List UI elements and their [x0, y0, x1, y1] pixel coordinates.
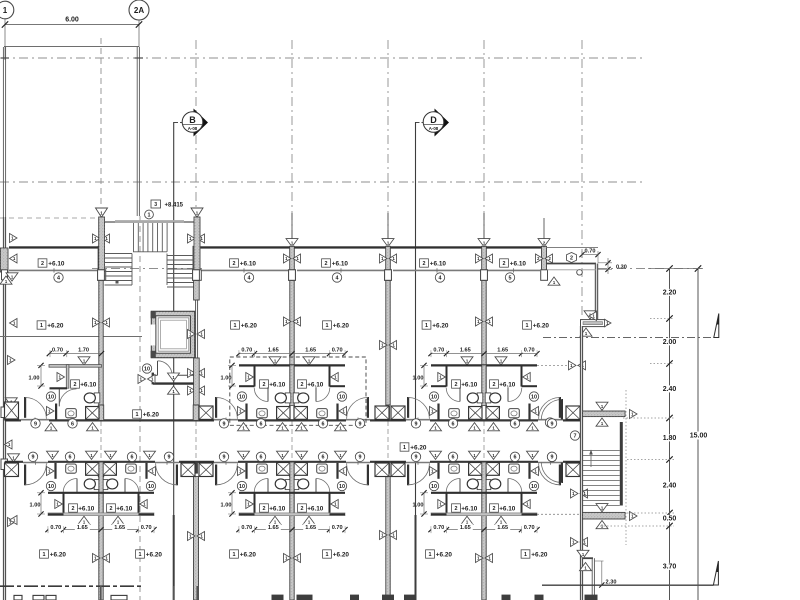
bathroom door right: [508, 479, 522, 493]
grid line 1 vertical: [4, 19, 6, 60]
bottom window stub x=111: [111, 595, 127, 600]
shower tray: [294, 463, 307, 476]
svg-text:10: 10: [144, 366, 150, 372]
mid pier upper x=196: [193, 405, 199, 420]
marker tri 1: [78, 357, 90, 365]
svg-text:1: 1: [425, 323, 428, 329]
grid line C horizontal: [92, 268, 204, 270]
svg-text:+6.20: +6.20: [47, 322, 64, 329]
toilet: [293, 479, 309, 490]
svg-text:1.65: 1.65: [460, 348, 471, 354]
party wall in pod: [290, 462, 294, 515]
shower tray: [486, 463, 499, 476]
svg-text:10: 10: [148, 484, 154, 490]
svg-text:2: 2: [325, 261, 328, 267]
dim tick 15.00 top: [695, 265, 701, 271]
dimension 0.70/1.70: [47, 348, 104, 358]
tri up wall right: [580, 328, 592, 336]
bathroom pod pair lower x=484: [407, 462, 561, 533]
mid pier lower x=388: [386, 462, 390, 474]
svg-text:+6.20: +6.20: [410, 444, 427, 451]
svg-text:1: 1: [43, 552, 46, 558]
svg-text:6: 6: [514, 421, 517, 427]
bowtie x=544: [536, 254, 553, 263]
grid dash in corridor at x=101: [100, 421, 102, 461]
stair mid landing line: [133, 251, 167, 253]
svg-text:0.70: 0.70: [241, 348, 252, 354]
svg-text:2: 2: [72, 506, 75, 512]
svg-text:+6.10: +6.10: [307, 505, 324, 512]
entry door: [24, 397, 46, 419]
wall right step: [546, 264, 598, 327]
column pier at x=101: [98, 246, 105, 280]
svg-text:1: 1: [234, 323, 237, 329]
svg-text:2: 2: [570, 255, 573, 261]
circled 7: [570, 431, 579, 440]
svg-text:1.00: 1.00: [413, 375, 424, 381]
svg-text:0.70: 0.70: [332, 348, 343, 354]
column pier at x=544: [541, 246, 548, 280]
wall stub right: [528, 404, 530, 420]
svg-text:9: 9: [551, 455, 554, 461]
corridor symbols upper x=292: [219, 419, 364, 431]
marker tri 1: [438, 373, 446, 382]
marker tri 1: [269, 516, 281, 524]
label 2 +6.10: [490, 504, 499, 512]
marker tri entry left: [430, 407, 438, 416]
column pier at x=292: [289, 246, 296, 280]
bowtie x=484 upper room: [476, 317, 493, 326]
marker tri 1: [331, 500, 339, 509]
svg-text:1.65: 1.65: [305, 525, 316, 531]
svg-text:+8.415: +8.415: [165, 202, 184, 208]
label +6.10 corridor: [420, 259, 429, 267]
bottom wall stub x=501.5: [502, 595, 511, 600]
svg-text:10: 10: [239, 394, 245, 400]
bathroom bottom walls: [431, 385, 537, 387]
wall stub left: [245, 404, 247, 420]
svg-text:6: 6: [322, 421, 325, 427]
svg-text:1: 1: [403, 445, 406, 451]
svg-text:2: 2: [423, 261, 426, 267]
wash basin: [257, 409, 268, 418]
stair left pier: [99, 217, 106, 280]
dim 0.30 right: [598, 258, 627, 274]
tri above left xbox lower: [8, 454, 20, 462]
svg-text:2: 2: [74, 382, 77, 388]
marker tri entry right: [339, 407, 347, 416]
elevator wall cap top: [151, 311, 156, 318]
bowtie x=196 upper room: [188, 330, 205, 339]
dimension 1.00: [413, 490, 428, 516]
tri right wall lower: [8, 518, 16, 527]
marker tri 1: [331, 373, 339, 382]
wall marker tri x=388: [382, 213, 394, 247]
svg-text:+6.10: +6.10: [80, 381, 97, 388]
toilet: [84, 393, 100, 403]
bowtie x=388 lower room: [380, 531, 397, 540]
label +6.20 lower room: [323, 550, 332, 558]
tri right of column: [605, 319, 612, 327]
marker tri 1: [495, 516, 507, 524]
dim tick y=318.5: [666, 315, 672, 321]
svg-text:A-08: A-08: [188, 126, 198, 131]
party wall white panel: [289, 462, 294, 476]
svg-text:+6.10: +6.10: [240, 260, 257, 267]
left end pier: [1, 248, 9, 280]
svg-text:9: 9: [168, 455, 171, 461]
grid dash in corridor at x=484: [483, 421, 485, 461]
svg-text:10: 10: [339, 484, 345, 490]
right stair upper bar: [583, 411, 625, 417]
svg-text:6: 6: [260, 421, 263, 427]
svg-text:1: 1: [3, 6, 8, 15]
wash basin: [449, 464, 460, 473]
party wall white panel: [481, 462, 486, 476]
dim tick y=418: [666, 415, 672, 421]
corridor symbols lower x=292: [219, 451, 364, 461]
svg-text:+6.10: +6.10: [461, 381, 478, 388]
small circle right: [577, 270, 583, 276]
svg-text:4: 4: [336, 275, 339, 281]
bathroom top wall: [431, 364, 537, 366]
party wall x=388 upper rooms: [386, 281, 390, 406]
lobby marker vertical bowtie: [168, 373, 180, 394]
section marker D: [416, 109, 450, 137]
label +6.20 corridor bay2: [133, 410, 142, 418]
grid bubble 2A: [129, 0, 149, 20]
tri down stair top: [596, 402, 608, 410]
shaft xbox lower: [5, 462, 19, 476]
pier foot redraw x=196: [193, 270, 200, 281]
bathroom pod unit 1: [24, 348, 104, 420]
shower tray: [86, 463, 99, 476]
lobby bowtie left: [138, 375, 155, 384]
label +6.20 upper room: [231, 321, 240, 329]
shaft xbox lower: [375, 462, 389, 476]
entry door right: [347, 464, 369, 486]
bathroom door right: [508, 387, 522, 401]
marker tri entry: [47, 407, 55, 416]
party wall x=292 lower rooms: [290, 477, 294, 600]
funnel marker x=101: [96, 208, 108, 222]
svg-text:+6.20: +6.20: [533, 322, 550, 329]
label +6.10 corridor: [322, 259, 331, 267]
svg-text:1.65: 1.65: [268, 348, 279, 354]
bathroom bottom walls: [239, 385, 345, 387]
svg-text:1: 1: [524, 552, 527, 558]
toilet: [485, 393, 501, 403]
svg-text:10: 10: [239, 484, 245, 490]
circled 10: [337, 392, 346, 401]
label 2 +6.10: [298, 380, 307, 388]
entry door left: [215, 397, 237, 419]
bottom wall left: [0, 585, 142, 587]
grid dash in corridor at x=292: [291, 421, 293, 461]
section line B: [173, 122, 175, 600]
label +6.20 upper room: [422, 321, 431, 329]
svg-text:10: 10: [48, 484, 54, 490]
tri right wall upper: [8, 356, 16, 365]
stair lower flight left: [105, 254, 133, 286]
circled 10: [146, 481, 155, 490]
svg-text:9: 9: [551, 421, 554, 427]
svg-text:1.80: 1.80: [663, 435, 677, 442]
party wall x=196 lower rooms: [194, 477, 199, 600]
svg-text:+6.20: +6.20: [50, 551, 67, 558]
svg-text:1.65: 1.65: [114, 525, 125, 531]
party wall in pod: [290, 365, 294, 420]
dim text 2.00: [661, 338, 679, 346]
svg-text:1.70: 1.70: [78, 348, 89, 354]
svg-text:+6.10: +6.10: [48, 260, 65, 267]
svg-text:2: 2: [301, 506, 304, 512]
entry door right: [156, 464, 178, 486]
wall stub left: [54, 463, 56, 479]
entry door left: [407, 397, 429, 419]
toilet: [467, 393, 483, 403]
dim ext y=513: [627, 512, 674, 514]
column right step: [581, 320, 606, 327]
label +6.20 lower room: [40, 550, 49, 558]
marker tri entry right: [531, 407, 539, 416]
svg-text:2: 2: [455, 382, 458, 388]
svg-text:+6.10: +6.10: [461, 505, 478, 512]
right stair arrow: [589, 450, 593, 468]
label 2 +6.10: [107, 504, 116, 512]
svg-text:1: 1: [526, 323, 529, 329]
svg-text:+6.20: +6.20: [432, 322, 449, 329]
left exterior wall: [3, 217, 5, 600]
wall stub left: [245, 463, 247, 479]
bathroom pod pair upper x=292: [215, 346, 369, 425]
right stair wall: [580, 326, 582, 600]
svg-text:+6.20: +6.20: [436, 551, 453, 558]
party wall white panel: [98, 462, 103, 476]
marker tri 1: [438, 500, 446, 509]
circled 10: [429, 481, 438, 490]
tri left wall right: [589, 312, 597, 321]
dimension 0.70/1.65/1.65/0.70: [236, 346, 347, 357]
svg-text:B: B: [189, 115, 196, 125]
svg-text:1: 1: [233, 552, 236, 558]
grid line 1A vertical dashed: [100, 38, 102, 217]
label +6.20 lower room: [136, 550, 145, 558]
bowtie x=388 upper room: [380, 341, 397, 350]
funnel marker x=196: [191, 208, 203, 222]
wall stub right: [336, 404, 338, 420]
toilet: [485, 479, 501, 490]
toilet: [84, 479, 100, 490]
bottom left verticals: [101, 586, 198, 600]
svg-text:2: 2: [263, 382, 266, 388]
dim ext top: [648, 268, 703, 270]
svg-text:2.00: 2.00: [663, 339, 677, 346]
wall marker tri x=292: [286, 213, 298, 247]
svg-text:10: 10: [339, 394, 345, 400]
mid pier lower x=101: [98, 462, 103, 477]
svg-text:2.20: 2.20: [663, 290, 677, 297]
bowtie left wall mid: [10, 319, 18, 328]
dim ext y=526: [600, 525, 674, 527]
tri up stair bottom: [596, 521, 608, 529]
marker tri 1: [112, 516, 124, 524]
svg-text:0.70: 0.70: [433, 348, 444, 354]
dim text 2.40: [661, 482, 679, 490]
svg-text:10: 10: [48, 394, 54, 400]
svg-text:9: 9: [223, 455, 226, 461]
marker tri 1: [246, 500, 254, 509]
right stair door lower: [541, 462, 563, 483]
bathroom bottom walls: [48, 513, 154, 516]
mid pier upper x=292: [290, 406, 294, 420]
svg-text:1: 1: [326, 323, 329, 329]
circled 10: [46, 481, 55, 490]
svg-text:3: 3: [154, 202, 157, 208]
svg-text:1: 1: [136, 412, 139, 418]
circled 5 top corridor: [505, 273, 514, 282]
svg-text:0.70: 0.70: [433, 525, 444, 531]
svg-text:10: 10: [531, 394, 537, 400]
grid dash in corridor at x=196: [195, 421, 197, 461]
bathroom side walls: [447, 493, 522, 515]
bathroom main wall: [48, 492, 154, 494]
marker tri entry left: [47, 467, 55, 476]
label 3 +8.415: [151, 200, 184, 208]
wash basin: [509, 464, 520, 473]
bathroom bottom wall: [50, 387, 68, 389]
grid line 5 vertical: [387, 40, 389, 246]
bathroom main wall: [431, 492, 537, 494]
tri right of left wall: [10, 234, 18, 243]
svg-text:1.65: 1.65: [268, 525, 279, 531]
marker tri entry right: [531, 467, 539, 476]
dimension 6.00: [2, 17, 142, 28]
bowtie x=484: [476, 254, 493, 263]
circled 10: [337, 481, 346, 490]
svg-text:D: D: [430, 115, 437, 125]
grid line A horizontal: [0, 57, 646, 59]
top corridor lower wall: [9, 268, 540, 272]
marker tri 1: [57, 373, 65, 382]
marker tri entry left: [430, 467, 438, 476]
mid pier upper x=388: [386, 406, 390, 420]
circled 9 right lower: [547, 452, 556, 461]
circled 10: [46, 392, 55, 401]
hex 2 right: [567, 253, 577, 263]
wall marker tri x=484: [478, 213, 490, 247]
party wall x=388 lower rooms: [386, 477, 390, 600]
dim tick y=459.5: [666, 456, 672, 462]
svg-text:+6.20: +6.20: [333, 322, 350, 329]
party wall in pod: [482, 462, 486, 515]
shower tray: [277, 463, 290, 476]
bathroom door right: [316, 387, 330, 401]
marker tri 1: [55, 500, 63, 509]
dimension 0.70/1.65/1.65/0.70: [236, 524, 347, 533]
entry door right: [539, 464, 561, 486]
svg-text:9: 9: [32, 455, 35, 461]
bottom wall stub x=296.5: [297, 595, 313, 600]
bathroom door left: [254, 387, 268, 401]
bowtie x=292 lower room: [284, 554, 301, 563]
svg-text:+6.20: +6.20: [143, 411, 160, 418]
entry door left: [407, 464, 429, 486]
mid pier upper x=101: [98, 405, 103, 420]
marker tri 1: [78, 516, 90, 524]
dashed reference line upper left: [0, 217, 104, 219]
bottom wall stub x=382: [382, 595, 394, 600]
marker tri 1: [246, 373, 254, 382]
bathroom main wall: [239, 492, 345, 494]
svg-text:6: 6: [71, 421, 74, 427]
svg-text:1.65: 1.65: [77, 525, 88, 531]
detail dashed box: [230, 357, 366, 425]
label 2 +6.10: [452, 380, 461, 388]
label +6.20 upper room: [37, 321, 46, 329]
bathroom door left: [254, 479, 268, 493]
svg-text:5: 5: [509, 275, 512, 281]
svg-text:0.70: 0.70: [332, 525, 343, 531]
wash basin: [257, 464, 268, 473]
svg-text:9: 9: [415, 455, 418, 461]
svg-text:6: 6: [69, 455, 72, 461]
shower tray: [103, 463, 116, 476]
marker tri 1: [303, 357, 315, 365]
svg-text:10: 10: [431, 484, 437, 490]
wash basin: [66, 409, 77, 418]
stair right pier: [194, 217, 201, 280]
bowtie left wall lower: [10, 516, 18, 525]
svg-text:4: 4: [57, 275, 60, 281]
toilet: [275, 479, 291, 490]
svg-text:0.30: 0.30: [616, 265, 627, 271]
entry door right: [347, 397, 369, 419]
svg-text:+6.20: +6.20: [531, 551, 548, 558]
lobby bowtie wall196 a: [188, 369, 205, 378]
pier foot redraw x=101: [98, 270, 105, 281]
tri up stair top: [596, 418, 608, 426]
corridor symbols lower x=484: [411, 451, 556, 461]
toilet: [102, 479, 118, 490]
tri right stair top: [630, 410, 638, 419]
corridor symbols lower x=101: [28, 451, 173, 461]
label +6.20 lower room: [426, 550, 435, 558]
marker tri 1: [523, 500, 531, 509]
bowtie x=484 lower room: [476, 554, 493, 563]
bowtie beside pier 196: [188, 234, 205, 243]
dotted pod link line: [537, 364, 580, 366]
tri up right end: [548, 277, 560, 285]
svg-text:9: 9: [34, 421, 37, 427]
shower tray: [277, 407, 290, 420]
svg-text:9: 9: [359, 455, 362, 461]
circled 1 stair: [145, 210, 154, 219]
party wall x=196 upper rooms: [194, 281, 200, 406]
dimension 0.70/1.65/1.65/0.70: [428, 524, 539, 533]
svg-text:1: 1: [429, 552, 432, 558]
elevator shaft: [151, 311, 195, 357]
marker tri 1: [495, 357, 507, 365]
bathroom door left: [63, 479, 77, 493]
wash basin: [509, 409, 520, 418]
svg-text:1: 1: [148, 212, 151, 218]
svg-text:+6.10: +6.10: [269, 505, 286, 512]
bathroom top wall: [239, 364, 345, 366]
shaft xbox lower: [199, 462, 213, 476]
pier foot redraw x=292: [289, 270, 296, 281]
shaft xbox lower: [566, 462, 580, 476]
